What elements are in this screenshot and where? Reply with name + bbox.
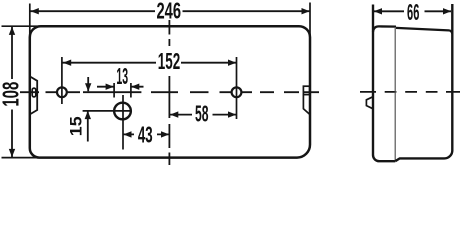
dim 152 line bbox=[62, 62, 236, 64]
left hole vertical line / 152 extension bbox=[61, 57, 63, 104]
vertical centerline bbox=[168, 20, 170, 165]
svg-text:246: 246 bbox=[156, 0, 181, 24]
arrow 108 up bbox=[9, 27, 15, 35]
side view right edge bbox=[395, 4, 452, 161]
arrow 246 left bbox=[31, 8, 39, 14]
dim 13 line bbox=[97, 86, 144, 88]
dim 108 bottom extension bbox=[2, 157, 53, 159]
big hole horizontal line / 15 extension bbox=[83, 110, 131, 112]
dim 246 line bbox=[30, 10, 309, 12]
arrow 13 outside-left bbox=[106, 84, 114, 90]
arrow 152 right bbox=[228, 60, 236, 66]
arrow 58 right bbox=[228, 111, 236, 117]
arrow 58 left bbox=[170, 111, 178, 117]
svg-text:152: 152 bbox=[158, 48, 180, 74]
arrow 13 outside-right bbox=[131, 84, 139, 90]
svg-text:15: 15 bbox=[66, 116, 86, 136]
horizontal centerline bbox=[20, 91, 319, 93]
dim 246 left extension bbox=[29, 4, 31, 49]
arrowheads bbox=[9, 8, 451, 157]
svg-text:66: 66 bbox=[407, 0, 419, 25]
dim 108 line bbox=[11, 27, 13, 157]
side view lens top chamfer bbox=[373, 26, 396, 31]
arrow 43 right bbox=[161, 131, 169, 137]
front view outline bbox=[30, 26, 310, 157]
arrow 108 down bbox=[9, 149, 15, 157]
svg-text:58: 58 bbox=[195, 100, 209, 126]
svg-text:13: 13 bbox=[116, 64, 128, 90]
arrow 15 up bbox=[85, 111, 91, 119]
arrow 15 down bbox=[85, 83, 91, 91]
right tab lower line bbox=[303, 95, 309, 115]
dim 13 right tick bbox=[130, 83, 132, 98]
svg-text:108: 108 bbox=[0, 82, 24, 107]
dim 108 top extension bbox=[2, 25, 53, 27]
side view left tab bbox=[366, 97, 372, 109]
right hole vertical line / 152+58 extension bbox=[236, 57, 238, 119]
horizontal centerline through side view bbox=[360, 91, 460, 93]
arrow 152 left bbox=[63, 60, 71, 66]
left tab slot bbox=[32, 88, 36, 97]
dim 246 right extension bbox=[309, 3, 311, 49]
left screw hole bbox=[57, 87, 67, 97]
right screw hole bbox=[232, 87, 242, 97]
dim 43 line bbox=[123, 133, 169, 135]
side view left edge bbox=[373, 5, 395, 162]
dim 58 line bbox=[170, 114, 236, 116]
side view body top bbox=[396, 28, 452, 34]
side view seam bbox=[394, 27, 396, 161]
cable hole d13 bbox=[114, 103, 131, 120]
arrow 66 right bbox=[443, 8, 451, 14]
dim 66 line bbox=[374, 10, 451, 12]
left gasket tab bbox=[30, 76, 37, 114]
arrow 43 left bbox=[123, 131, 131, 137]
dim 15 line bbox=[87, 77, 89, 142]
big hole vertical line / 43 extension bbox=[122, 95, 124, 150]
arrow 246 right bbox=[302, 8, 310, 14]
dim 13 left tick bbox=[113, 83, 115, 98]
right tab rect bbox=[303, 86, 309, 94]
arrow 66 left bbox=[374, 8, 382, 14]
svg-text:43: 43 bbox=[138, 122, 153, 148]
